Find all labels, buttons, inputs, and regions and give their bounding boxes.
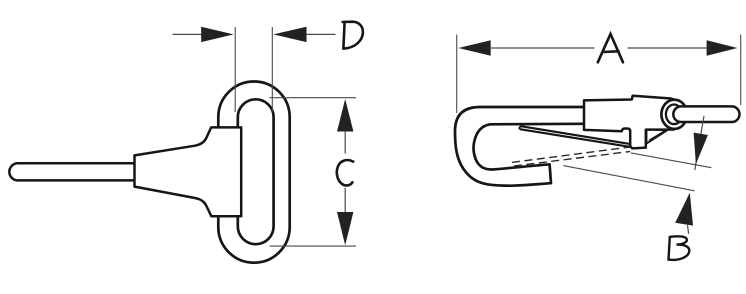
hook body outline [455, 107, 584, 186]
swivel pin [673, 106, 739, 122]
label C [337, 160, 353, 185]
swivel ring [661, 100, 687, 129]
A extension line right [740, 35, 742, 106]
stem handle / clamp [135, 127, 242, 216]
gate rivet triangle [647, 130, 668, 144]
label D [343, 22, 363, 49]
eye outer stadium [218, 82, 289, 263]
label B [669, 236, 690, 260]
eye inner stadium [238, 99, 274, 244]
C dimension line + arrows [337, 99, 353, 132]
D extension line right [271, 27, 273, 112]
body block [584, 96, 674, 149]
stem pin [9, 163, 134, 180]
B lower leader + arrow [688, 225, 689, 234]
C extension line bottom [270, 245, 357, 247]
D dimension arrow left [173, 33, 204, 35]
A dimension line + arrows [458, 40, 490, 55]
gate open (dashed) [512, 147, 630, 162]
C extension line top [270, 97, 357, 99]
D extension line left [234, 27, 236, 112]
label A [598, 34, 623, 62]
B lower thin line [563, 166, 694, 191]
B upper thin line [631, 153, 712, 168]
gate spring (closed) [520, 126, 632, 147]
D dimension arrow right [305, 33, 336, 35]
B upper leader + arrow [695, 116, 704, 170]
A extension line left [456, 35, 458, 114]
